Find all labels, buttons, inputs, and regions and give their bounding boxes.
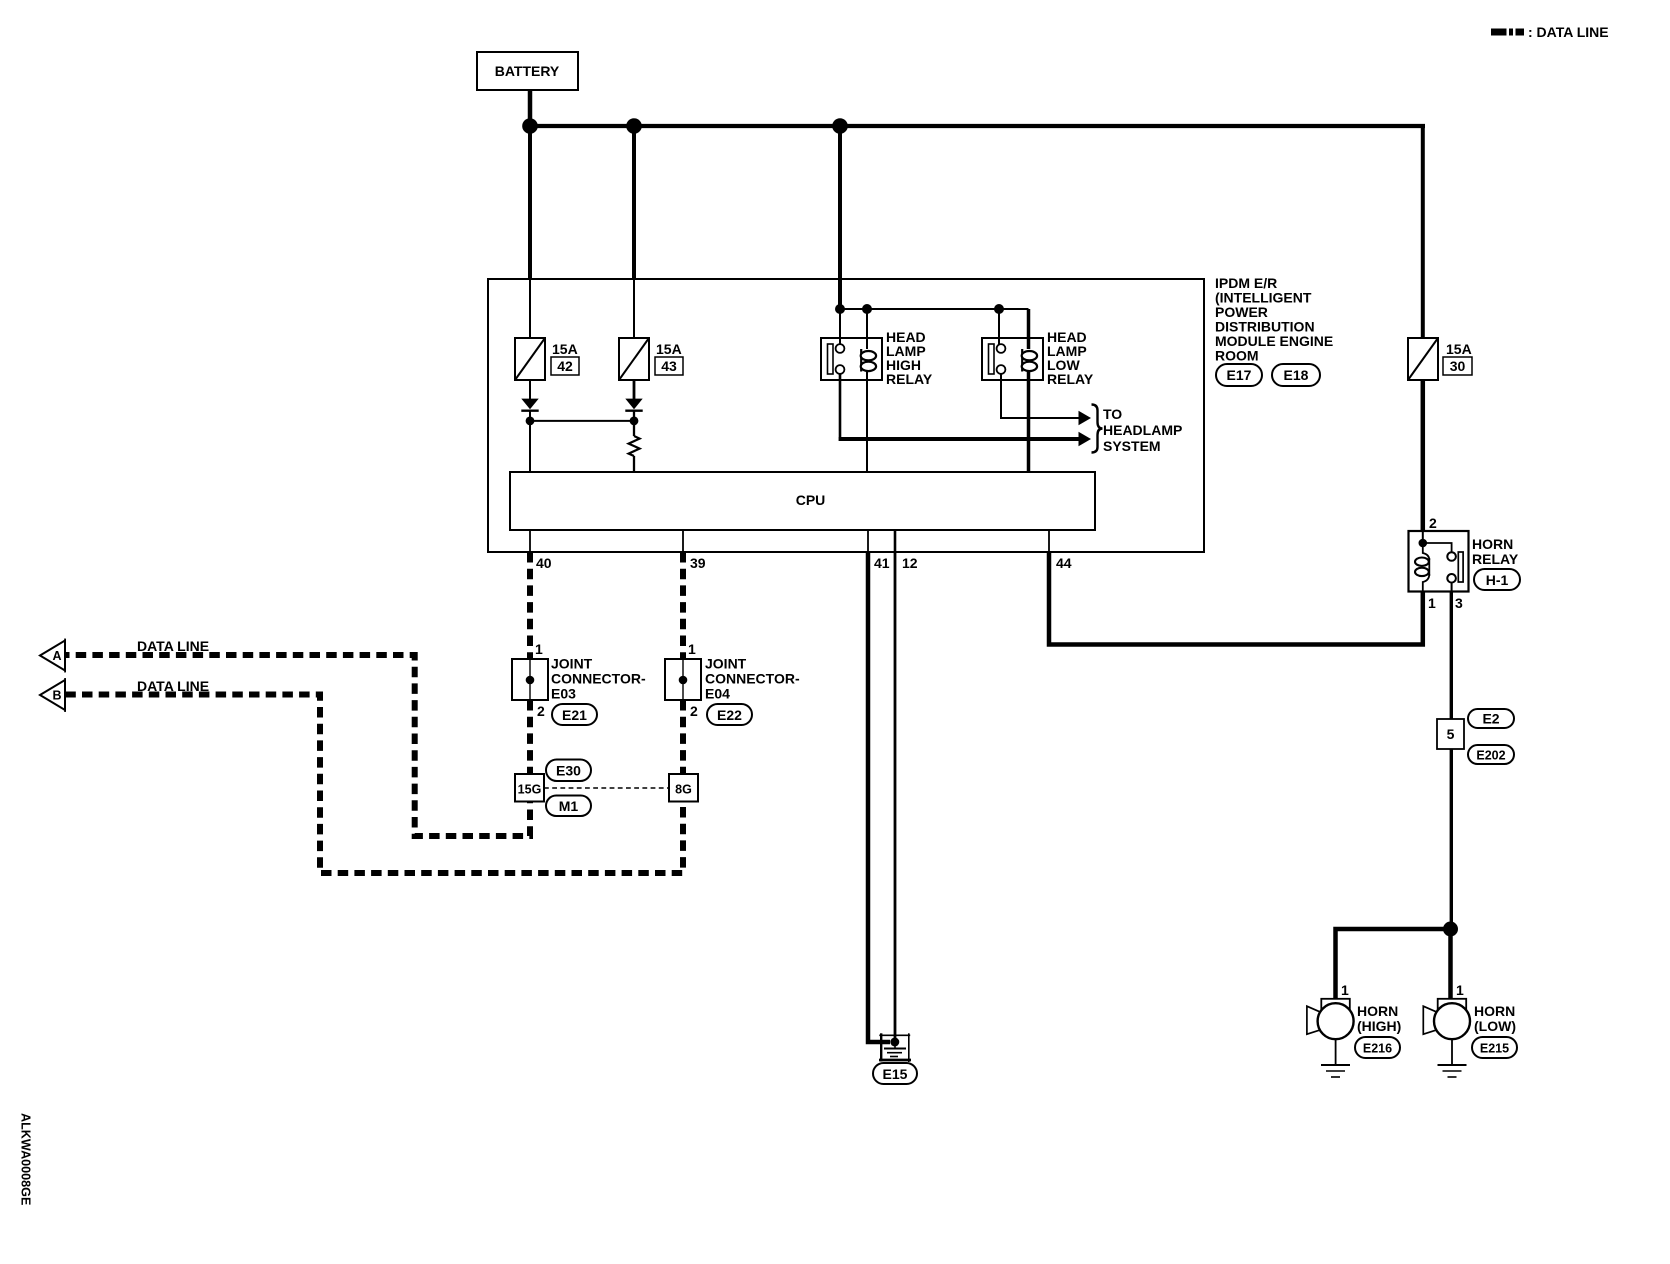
joint connector E04 pin 1 label <box>688 641 696 657</box>
IPDM E/R label <box>1215 275 1333 364</box>
svg-text:TO: TO <box>1103 406 1122 422</box>
wire high relay switch to headlamp <box>839 374 1079 441</box>
fuse 42 15A <box>515 338 545 380</box>
connector label E17 <box>1216 364 1262 386</box>
horn low label <box>1474 1003 1516 1034</box>
wire data line pin 40 to joint connector E03 <box>527 552 533 659</box>
horn relay H-1 <box>1409 531 1469 592</box>
joint connector E03 <box>512 659 548 700</box>
svg-text:BATTERY: BATTERY <box>495 63 560 79</box>
wire bus to fuse 42 <box>528 126 532 338</box>
connector label H-1 <box>1474 569 1520 590</box>
connector label E15 <box>873 1063 917 1084</box>
wire to high relay switch <box>839 309 841 345</box>
ground symbol E15 <box>884 1042 906 1057</box>
svg-text:H-1: H-1 <box>1486 572 1509 588</box>
pin 44 label <box>1056 555 1072 571</box>
arrow to headlamp 1 <box>1079 411 1092 425</box>
wire bus to relay node <box>838 126 842 309</box>
svg-text:E21: E21 <box>562 707 587 723</box>
wire data line pin 39 to joint connector E04 <box>680 552 686 659</box>
joint connector E04 label <box>705 656 800 702</box>
pin 41 label <box>874 555 890 571</box>
wire fuse 43 to diode <box>633 380 636 400</box>
svg-text:41: 41 <box>874 555 890 571</box>
svg-text:E216: E216 <box>1363 1042 1392 1056</box>
fuse 43 15A <box>619 338 649 380</box>
pin 44 stub <box>1048 530 1050 552</box>
CPU box U1 <box>510 472 1095 530</box>
svg-text:43: 43 <box>661 358 677 374</box>
fuse 30 value 15A <box>1446 341 1472 357</box>
svg-text:HORN: HORN <box>1472 536 1513 552</box>
resistor R1 <box>629 421 640 472</box>
svg-text:ROOM: ROOM <box>1215 348 1259 364</box>
node ground junction <box>890 1038 899 1047</box>
horn relay pin 2 label <box>1429 515 1437 531</box>
svg-text:2: 2 <box>537 703 545 719</box>
pin 12 stub <box>894 530 897 552</box>
svg-text:B: B <box>52 689 61 703</box>
diode D1 <box>521 399 538 421</box>
svg-text:8G: 8G <box>675 783 692 797</box>
svg-text:E18: E18 <box>1284 367 1309 383</box>
svg-text:E2: E2 <box>1482 711 1499 727</box>
svg-text:CONNECTOR-: CONNECTOR- <box>705 671 800 687</box>
terminal 15G box <box>515 774 544 802</box>
node relay feed dot 1 <box>835 304 845 314</box>
svg-text:1: 1 <box>535 641 543 657</box>
svg-text:RELAY: RELAY <box>1047 371 1094 387</box>
horn relay pin 3 label <box>1455 595 1463 611</box>
wire pin 41 to ground <box>868 552 890 1042</box>
svg-text:DATA LINE: DATA LINE <box>137 678 209 694</box>
head lamp low relay label <box>1047 329 1094 387</box>
pin 39 label <box>690 555 706 571</box>
diode D2 <box>625 399 642 421</box>
svg-text:DATA LINE: DATA LINE <box>137 638 209 654</box>
svg-text:A: A <box>52 649 61 663</box>
connector label M1 <box>546 796 591 817</box>
svg-text:HEADLAMP: HEADLAMP <box>1103 422 1182 438</box>
drawing number ALKWA0008GE <box>19 1113 33 1205</box>
wire to high relay coil <box>866 309 868 349</box>
svg-text:15A: 15A <box>656 341 682 357</box>
horn low pin 1 label <box>1456 982 1464 998</box>
ground horn low <box>1438 1039 1467 1077</box>
pin 40 stub <box>529 530 531 552</box>
wire to low relay coil <box>1027 309 1031 349</box>
svg-text:2: 2 <box>690 703 698 719</box>
ground box E15 <box>879 1033 911 1062</box>
svg-text:(HIGH): (HIGH) <box>1357 1018 1401 1034</box>
node junction dot bus 3 <box>832 118 848 134</box>
connector label E216 <box>1355 1037 1400 1058</box>
wire horn junction branch <box>1336 929 1451 998</box>
joint connector E03 pin 2 label <box>537 703 545 719</box>
wire bus corner down to fuse 30 <box>1421 126 1425 338</box>
svg-text:RELAY: RELAY <box>886 371 933 387</box>
node relay feed dot 2 <box>862 304 872 314</box>
svg-text:15G: 15G <box>518 783 542 797</box>
connector 5 box <box>1437 719 1464 749</box>
svg-text:E202: E202 <box>1476 749 1505 763</box>
svg-text:E17: E17 <box>1227 367 1252 383</box>
pin 12 label <box>902 555 918 571</box>
svg-text:E215: E215 <box>1480 1042 1509 1056</box>
connector label E215 <box>1472 1037 1517 1058</box>
svg-text:RELAY: RELAY <box>1472 551 1519 567</box>
wire node A to CPU <box>529 421 531 472</box>
head lamp high relay label <box>886 329 933 387</box>
svg-text:1: 1 <box>688 641 696 657</box>
battery <box>477 52 578 90</box>
wire pin 12 to ground <box>894 552 897 1042</box>
wire link 15G to 8G <box>544 787 669 789</box>
wire battery to bus <box>528 90 533 126</box>
svg-text:42: 42 <box>557 358 573 374</box>
node horn junction <box>1443 922 1458 937</box>
connector label E30 <box>546 760 591 782</box>
connector label E202 <box>1468 745 1514 764</box>
wire high relay coil to CPU <box>866 370 868 472</box>
pin 41 stub <box>867 530 869 552</box>
svg-text:E15: E15 <box>883 1066 908 1082</box>
fuse 42 value 15A <box>552 341 578 357</box>
data line legend sample <box>1491 29 1524 36</box>
fuse 42 number box <box>551 357 579 375</box>
wire horn junction to horn low <box>1448 929 1453 998</box>
svg-text:E30: E30 <box>556 763 581 779</box>
fuse 43 number box <box>655 357 683 375</box>
svg-text:E22: E22 <box>717 707 742 723</box>
svg-text:39: 39 <box>690 555 706 571</box>
pin 40 label <box>536 555 552 571</box>
svg-text:HORN: HORN <box>1474 1003 1515 1019</box>
horn high pin 1 label <box>1341 982 1349 998</box>
svg-text:15A: 15A <box>552 341 578 357</box>
svg-text:1: 1 <box>1341 982 1349 998</box>
data line B label <box>137 678 209 694</box>
joint connector E03 label <box>551 656 646 702</box>
svg-text:44: 44 <box>1056 555 1072 571</box>
svg-text:CONNECTOR-: CONNECTOR- <box>551 671 646 687</box>
svg-text:JOINT: JOINT <box>551 656 593 672</box>
arrow to headlamp 2 <box>1079 432 1092 446</box>
brace headlamp system <box>1092 405 1103 453</box>
head lamp high relay K1 <box>821 338 882 380</box>
svg-text:1: 1 <box>1428 595 1436 611</box>
wire low relay switch to headlamp <box>1001 374 1079 418</box>
connector label E22 <box>707 704 752 725</box>
head lamp low relay K2 <box>982 338 1043 380</box>
horn relay label <box>1472 536 1519 567</box>
svg-text:CPU: CPU <box>796 492 826 508</box>
wire fuse 42 to diode <box>529 380 531 400</box>
fuse 30 number box <box>1443 357 1472 375</box>
svg-text:ALKWA0008GE: ALKWA0008GE <box>19 1113 33 1205</box>
horn high E216 <box>1307 999 1354 1039</box>
wire data line B route <box>66 695 683 874</box>
node junction dot bus 1 <box>522 118 538 134</box>
legend label : DATA LINE <box>1528 24 1609 40</box>
arrow B <box>40 678 65 712</box>
svg-text:5: 5 <box>1447 726 1455 742</box>
to headlamp system label <box>1103 406 1182 454</box>
svg-text:1: 1 <box>1456 982 1464 998</box>
svg-text:30: 30 <box>1450 358 1466 374</box>
svg-text:HORN: HORN <box>1357 1003 1398 1019</box>
arrow A <box>40 639 65 673</box>
connector label E21 <box>552 704 597 725</box>
node diode junction A <box>526 417 535 426</box>
svg-text:2: 2 <box>1429 515 1437 531</box>
fuse 43 value 15A <box>656 341 682 357</box>
horn relay pin 1 label <box>1428 595 1436 611</box>
wire power bus horizontal <box>530 124 1425 128</box>
wire relay feed horizontal <box>840 308 1029 310</box>
svg-text:E04: E04 <box>705 686 730 702</box>
svg-text:SYSTEM: SYSTEM <box>1103 438 1161 454</box>
connector label E18 <box>1272 364 1320 386</box>
wire fuse 30 to horn relay pin 2 <box>1421 380 1426 531</box>
wire data line E04 to 8G <box>680 700 686 774</box>
joint connector E04 <box>665 659 701 700</box>
joint connector E03 pin 1 label <box>535 641 543 657</box>
svg-text:: DATA LINE: : DATA LINE <box>1528 24 1609 40</box>
ground horn high <box>1321 1039 1350 1077</box>
node relay feed dot 3 <box>994 304 1004 314</box>
wire connector 5 to horn junction <box>1450 749 1453 929</box>
svg-text:E03: E03 <box>551 686 576 702</box>
terminal 8G box <box>669 774 698 802</box>
data line A label <box>137 638 209 654</box>
svg-text:(LOW): (LOW) <box>1474 1018 1516 1034</box>
wire horn relay pin 3 to connector 5 <box>1450 592 1453 720</box>
wire data line A route <box>66 655 530 836</box>
svg-text:JOINT: JOINT <box>705 656 747 672</box>
svg-text:15A: 15A <box>1446 341 1472 357</box>
IPDM E/R box <box>488 279 1204 552</box>
svg-text:M1: M1 <box>559 798 579 814</box>
pin 39 stub <box>682 530 684 552</box>
node junction dot bus 2 <box>626 118 642 134</box>
connector label E2 <box>1468 709 1514 728</box>
horn high label <box>1357 1003 1401 1034</box>
wire bus to fuse 43 <box>632 126 636 338</box>
wire to low relay switch <box>998 309 1000 345</box>
horn low E215 <box>1423 999 1470 1039</box>
svg-text:3: 3 <box>1455 595 1463 611</box>
wire data line E03 to 15G <box>527 700 533 774</box>
wire low relay coil to CPU <box>1027 370 1031 472</box>
svg-text:12: 12 <box>902 555 918 571</box>
wire pin 44 to horn relay <box>1049 552 1423 645</box>
wire diode junction link <box>530 420 634 422</box>
joint connector E04 pin 2 label <box>690 703 698 719</box>
fuse 30 15A <box>1408 338 1438 380</box>
node diode junction B <box>630 417 639 426</box>
svg-text:40: 40 <box>536 555 552 571</box>
